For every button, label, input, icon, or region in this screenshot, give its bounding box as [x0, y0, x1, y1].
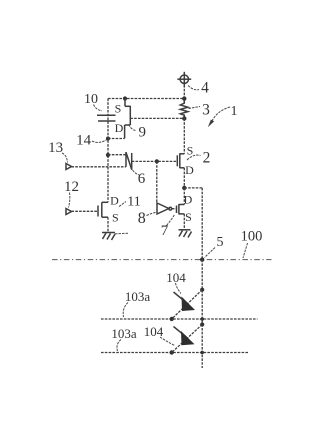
wire top rail — [108, 98, 184, 100]
transistor Q2 — [177, 119, 184, 188]
svg-text:4: 4 — [201, 80, 209, 97]
label 104 upper — [166, 270, 186, 294]
wire comparator output — [132, 160, 178, 162]
fuse link 104 lower — [172, 325, 203, 353]
wire row A — [101, 318, 258, 320]
node dot X1 bottom — [170, 317, 174, 321]
svg-text:D: D — [184, 193, 193, 207]
label 7 — [161, 215, 175, 240]
wire Q9 mid to node below resistor — [130, 117, 184, 119]
label 6 — [133, 170, 146, 187]
label 11 — [119, 195, 141, 210]
node dot top rail right — [182, 96, 186, 100]
svg-text:S: S — [187, 144, 194, 158]
wire row B — [101, 352, 248, 354]
chain line 100 boundary — [52, 259, 272, 261]
svg-text:9: 9 — [139, 125, 147, 141]
transistor Q11 — [98, 202, 108, 232]
gate bars of Q9 — [97, 114, 116, 116]
svg-text:11: 11 — [127, 195, 140, 210]
label 14 — [76, 133, 107, 149]
input terminal 12 — [66, 209, 72, 215]
node dot below resistor — [182, 116, 186, 120]
comparator 6 — [126, 152, 132, 170]
label 8 — [138, 210, 157, 227]
wire vertical net line — [107, 99, 109, 203]
wire output to right corner — [184, 187, 202, 189]
resistor 3 — [180, 101, 188, 119]
wire supply vertical — [183, 85, 185, 103]
label 1 with curved arrow — [208, 104, 238, 127]
node dot on net line input 6 — [106, 153, 110, 157]
svg-text:D: D — [185, 163, 194, 177]
svg-text:8: 8 — [138, 210, 146, 227]
wire terminal 12 to Q11 gate — [72, 210, 99, 212]
node 5 dot — [200, 257, 204, 261]
svg-text:D: D — [115, 121, 124, 135]
node dot X2 bottom — [170, 350, 174, 354]
svg-text:2: 2 — [203, 150, 211, 167]
wire Q9 drain to net line — [108, 138, 125, 140]
svg-text:S: S — [185, 210, 192, 224]
label 3 — [189, 102, 211, 119]
node dot row A crossing — [200, 317, 204, 321]
svg-text:104: 104 — [144, 324, 164, 339]
svg-text:10: 10 — [84, 92, 98, 107]
svg-text:S: S — [112, 210, 119, 224]
wire buffer output to Q7 gate — [172, 208, 177, 210]
label 2 — [187, 150, 210, 167]
label 9 — [129, 125, 147, 141]
label 10 — [84, 92, 102, 111]
wire terminal 13 to comparator input 2 — [72, 166, 127, 168]
node dot row B crossing — [200, 351, 204, 355]
label 12 — [64, 179, 79, 208]
transistor Q7 — [177, 188, 185, 230]
node dot output branch — [155, 159, 159, 163]
svg-text:3: 3 — [202, 102, 210, 119]
svg-text:100: 100 — [241, 229, 263, 245]
node dot Q9 source — [123, 96, 127, 100]
node dot Q2 drain output — [182, 186, 186, 190]
svg-text:7: 7 — [161, 223, 169, 239]
node dot X1 top — [200, 288, 204, 292]
wire net to comparator input 1 — [108, 154, 126, 156]
label 4 — [188, 80, 209, 97]
input terminal 13 — [66, 164, 72, 170]
node dot on net line at drain — [106, 136, 110, 140]
label 5 — [205, 235, 224, 258]
label 103a lower — [111, 326, 137, 351]
wire vertical below node 5 — [201, 260, 203, 368]
svg-text:D: D — [110, 193, 119, 207]
svg-text:S: S — [115, 102, 122, 116]
label 100 — [241, 229, 263, 259]
ground under Q11 — [102, 233, 128, 241]
transistor Q9 — [97, 99, 130, 139]
label 104 lower — [144, 324, 175, 346]
ground under Q7 — [179, 230, 192, 238]
svg-text:6: 6 — [138, 171, 146, 187]
svg-text:14: 14 — [76, 133, 92, 149]
label 103a upper — [123, 289, 150, 317]
fuse link 104 upper — [172, 290, 203, 319]
svg-text:13: 13 — [48, 140, 63, 156]
power supply terminal 4 symbol — [177, 72, 191, 87]
svg-text:104: 104 — [166, 270, 186, 285]
svg-text:103a: 103a — [125, 289, 151, 304]
svg-text:103a: 103a — [111, 326, 137, 341]
wire output vertical down to node 5 — [201, 188, 203, 260]
svg-text:1: 1 — [231, 104, 238, 119]
label 13 — [48, 140, 67, 163]
svg-text:12: 12 — [64, 179, 79, 195]
node dot X2 top — [200, 322, 204, 326]
buffer 8 — [157, 161, 172, 214]
svg-text:5: 5 — [217, 235, 224, 250]
